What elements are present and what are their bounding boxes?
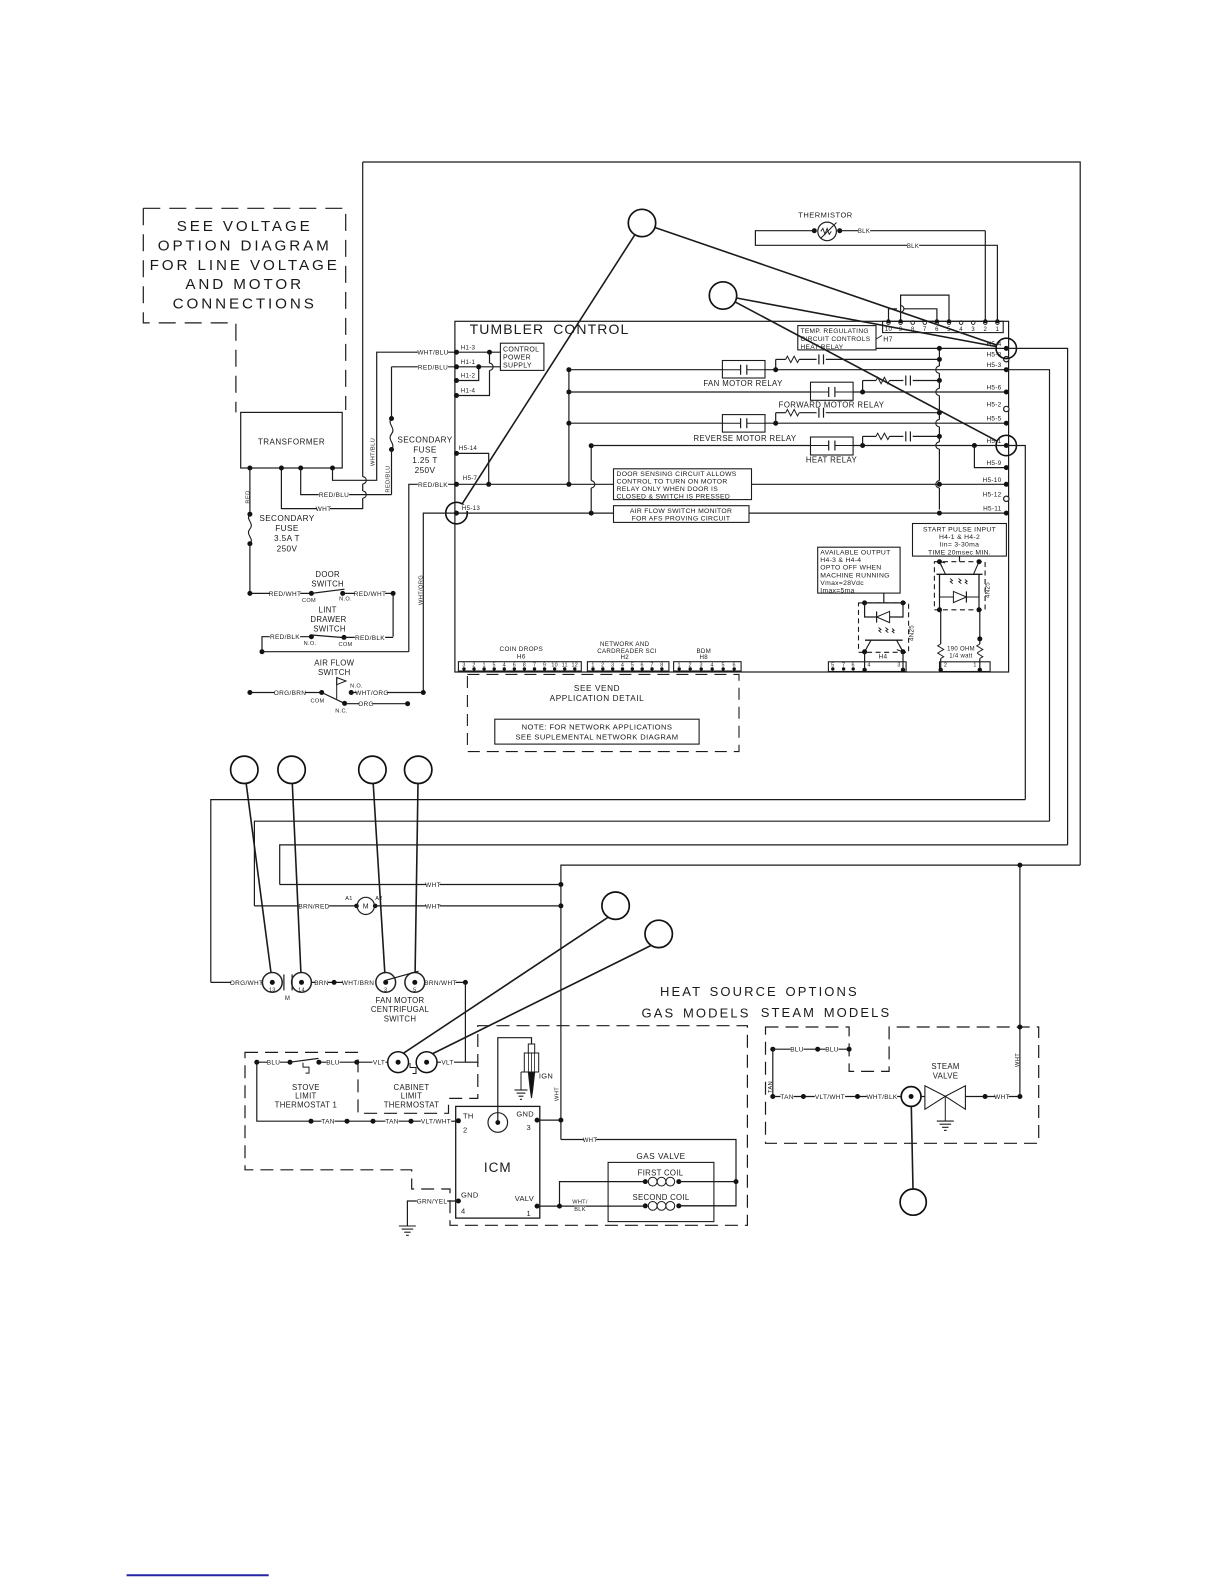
pin H7-1 wire to thermistor xyxy=(995,319,999,323)
svg-text:H7: H7 xyxy=(883,337,893,344)
wire second coil right xyxy=(679,1205,736,1207)
svg-text:RELAY ONLY WHEN DOOR IS: RELAY ONLY WHEN DOOR IS xyxy=(617,486,719,493)
centrifugal switch contact 13 xyxy=(262,973,282,993)
svg-text:GND: GND xyxy=(461,1191,479,1200)
wire label WHT xyxy=(317,506,330,513)
heat relay rail xyxy=(590,446,592,481)
wire H5-1 net bottom run xyxy=(211,800,1026,983)
svg-text:VLT: VLT xyxy=(373,1060,385,1067)
svg-text:H5-11: H5-11 xyxy=(983,506,1002,513)
svg-text:H5-14: H5-14 xyxy=(459,445,478,452)
wire heat relay coil H5-1 row xyxy=(591,445,810,447)
svg-text:HEAT SOURCE OPTIONS: HEAT SOURCE OPTIONS xyxy=(660,984,859,999)
svg-text:APPLICATION DETAIL: APPLICATION DETAIL xyxy=(550,694,645,703)
pin H1-3 xyxy=(454,350,459,355)
svg-text:BRN/WHT: BRN/WHT xyxy=(424,980,456,987)
svg-text:VLT/WHT: VLT/WHT xyxy=(421,1119,451,1126)
svg-text:1: 1 xyxy=(527,1209,531,1218)
svg-text:CABINET: CABINET xyxy=(394,1083,430,1092)
svg-text:SWITCH: SWITCH xyxy=(318,668,351,677)
svg-text:FOR LINE VOLTAGE: FOR LINE VOLTAGE xyxy=(150,257,340,274)
cabinet limit thermostat S5 contact B xyxy=(416,1052,437,1073)
svg-text:RED/BLK: RED/BLK xyxy=(355,635,385,642)
wire fan relay coil H5-3 row xyxy=(569,369,723,371)
jump circle 4 xyxy=(278,756,305,783)
svg-text:GND: GND xyxy=(516,1110,534,1119)
snubber RC row3 xyxy=(775,413,777,424)
svg-text:RED/WHT: RED/WHT xyxy=(269,591,301,598)
ICM module box xyxy=(456,1106,540,1218)
svg-text:2: 2 xyxy=(944,663,947,669)
jump circle 1 xyxy=(628,209,655,236)
svg-text:FUSE: FUSE xyxy=(413,446,437,455)
svg-text:1/4 watt: 1/4 watt xyxy=(949,653,972,659)
jump line circle2 to H5-1 xyxy=(735,302,998,442)
temp regulating note box xyxy=(798,326,876,350)
svg-text:Imax=5ma: Imax=5ma xyxy=(820,588,854,595)
svg-text:GRN/YEL: GRN/YEL xyxy=(417,1199,448,1206)
svg-text:TH: TH xyxy=(463,1111,474,1120)
wire thermistor right BLK to H7-2 xyxy=(840,230,986,232)
jump line circle1 to H5-13 xyxy=(462,235,635,504)
svg-text:WHT/BRN: WHT/BRN xyxy=(342,980,374,987)
svg-text:WHT/ORG: WHT/ORG xyxy=(419,575,425,605)
connector H2 network and cardreader xyxy=(587,662,669,671)
svg-text:M: M xyxy=(285,996,290,1002)
fuse F1 secondary 3.5A T 250V xyxy=(248,514,251,544)
wire H1-1 to control power supply xyxy=(457,366,501,368)
wire WHT to fan motor xyxy=(280,884,561,886)
svg-text:AIR FLOW SWITCH MONITOR: AIR FLOW SWITCH MONITOR xyxy=(630,508,732,515)
svg-text:M: M xyxy=(363,904,369,911)
svg-text:SWITCH: SWITCH xyxy=(384,1014,417,1023)
jump circle 2 xyxy=(709,282,736,309)
wire BRN/RED to drive motor xyxy=(254,905,356,907)
jump line circle5 to contact 3 xyxy=(373,784,385,973)
dashed box see vend application detail xyxy=(467,674,739,751)
pin H7-9 jumper to H7-5 xyxy=(899,319,903,323)
relay K4 heat relay xyxy=(811,437,854,455)
wire RED/BLU to H1-1 xyxy=(392,366,457,368)
wire H5-13 net to AFS monitor and H5-11 xyxy=(457,512,614,514)
svg-text:START PULSE INPUT: START PULSE INPUT xyxy=(923,527,996,534)
svg-text:BLK: BLK xyxy=(858,229,870,235)
svg-text:TAN: TAN xyxy=(321,1119,334,1126)
svg-text:THERMOSTAT 1: THERMOSTAT 1 xyxy=(275,1100,338,1109)
jump line circle2 to H5-4 xyxy=(737,298,997,347)
wire reverse relay coil H5-5 row xyxy=(569,422,723,424)
svg-text:RED/BLU: RED/BLU xyxy=(385,465,391,492)
svg-text:TIME 20msec MIN.: TIME 20msec MIN. xyxy=(928,549,991,556)
svg-text:COM: COM xyxy=(302,598,316,604)
cabinet limit thermostat S5 contact A xyxy=(388,1052,409,1073)
svg-text:BLK: BLK xyxy=(907,244,919,250)
ring around pin H5-1 xyxy=(996,435,1016,455)
svg-text:4N25: 4N25 xyxy=(985,582,992,598)
wire WHT steam riser to frame xyxy=(1017,1094,1022,1099)
svg-text:4: 4 xyxy=(461,1207,465,1216)
connector H7 header xyxy=(883,321,1004,332)
wire RED/BLU transformer-pin3 to fuse xyxy=(301,468,392,495)
svg-text:N.C.: N.C. xyxy=(335,708,348,714)
relay K3 reverse motor relay xyxy=(722,415,765,433)
wire BLU steam xyxy=(770,1047,775,1052)
wire H1-3 to control power supply xyxy=(457,351,501,353)
dashed box steam models xyxy=(766,1027,1039,1143)
svg-text:COM: COM xyxy=(311,699,325,705)
svg-text:RED: RED xyxy=(246,490,252,503)
svg-text:LIMIT: LIMIT xyxy=(295,1092,316,1101)
wire WHT frame bottom run xyxy=(561,865,1080,1139)
label cabinet limit thermostat xyxy=(394,1083,430,1091)
diode LED U2 xyxy=(877,611,890,622)
svg-text:POWER: POWER xyxy=(503,355,531,362)
svg-text:RED/BLK: RED/BLK xyxy=(418,482,448,489)
wire opto to H4-4 xyxy=(864,652,866,670)
jump line circle9 to steam valve xyxy=(911,1106,913,1189)
svg-text:FOR AFS PROVING CIRCUIT: FOR AFS PROVING CIRCUIT xyxy=(632,515,731,522)
jump circle 9 xyxy=(900,1189,926,1215)
svg-text:250V: 250V xyxy=(277,544,298,553)
air flow switch S3 xyxy=(247,690,252,695)
pin H5-7 xyxy=(454,482,459,487)
svg-text:5: 5 xyxy=(413,988,416,994)
pin H5-8 xyxy=(1004,357,1009,362)
wire RED/BLK to lint drawer switch xyxy=(409,484,457,651)
phototransistor U2 xyxy=(865,639,903,641)
svg-text:TAN: TAN xyxy=(780,1094,793,1101)
door sensing note box xyxy=(614,469,752,500)
pin ICM GND 3 xyxy=(535,1118,540,1123)
svg-text:FIRST COIL: FIRST COIL xyxy=(638,1169,684,1178)
svg-text:STEAM MODELS: STEAM MODELS xyxy=(761,1005,892,1020)
igniter ground xyxy=(520,1072,522,1090)
svg-text:WHT/BLU: WHT/BLU xyxy=(370,438,376,466)
wire WHT to gas valve xyxy=(561,1140,736,1206)
wire ORG/WHT to contact 13 xyxy=(211,981,263,983)
jump circle 8 xyxy=(645,920,672,947)
svg-text:N.O.: N.O. xyxy=(304,641,317,647)
wire TAN steam riser xyxy=(772,1049,774,1096)
jump circle 3 xyxy=(231,756,258,783)
jump circle 5 xyxy=(359,756,386,783)
wire H1-2 jumper xyxy=(457,367,479,381)
svg-text:H5-7: H5-7 xyxy=(463,475,478,482)
svg-text:FORWARD MOTOR RELAY: FORWARD MOTOR RELAY xyxy=(779,401,885,410)
wire BRN xyxy=(311,981,349,983)
wire lint bottom to RED/BLK riser xyxy=(260,649,265,654)
svg-text:VLT/WHT: VLT/WHT xyxy=(815,1094,845,1101)
svg-text:STEAM: STEAM xyxy=(931,1062,959,1071)
wire first coil left xyxy=(560,1182,646,1207)
resistor R1 190 ohm xyxy=(940,610,942,644)
svg-text:VALV: VALV xyxy=(515,1194,534,1203)
svg-text:WHT: WHT xyxy=(425,882,441,889)
centrifugal switch contact 14 xyxy=(292,973,312,993)
resistor R2 190 ohm xyxy=(979,610,981,639)
svg-text:H4: H4 xyxy=(879,653,888,660)
svg-text:H8: H8 xyxy=(700,654,709,661)
svg-text:TUMBLER CONTROL: TUMBLER CONTROL xyxy=(470,321,630,337)
svg-text:TAN: TAN xyxy=(768,1081,774,1093)
svg-text:4N25: 4N25 xyxy=(909,625,916,641)
wire ICM GND3 to WHT drop xyxy=(537,1119,561,1121)
svg-text:H5-13: H5-13 xyxy=(462,505,481,512)
svg-text:H5-12: H5-12 xyxy=(983,491,1002,498)
svg-text:13: 13 xyxy=(269,988,276,994)
svg-text:HEAT RELAY: HEAT RELAY xyxy=(806,456,858,465)
svg-text:BRN/RED: BRN/RED xyxy=(298,903,329,910)
svg-text:WHT: WHT xyxy=(554,1087,560,1101)
svg-text:FUSE: FUSE xyxy=(275,524,299,533)
svg-text:IGN: IGN xyxy=(539,1072,553,1081)
svg-text:A2: A2 xyxy=(375,896,382,902)
svg-text:CLOSED & SWITCH IS PRESSED: CLOSED & SWITCH IS PRESSED xyxy=(617,494,731,501)
svg-text:2: 2 xyxy=(983,327,987,333)
dashed box gas models xyxy=(245,1026,747,1226)
pin H5-11 xyxy=(1004,511,1009,516)
svg-text:1: 1 xyxy=(996,327,1000,333)
svg-text:COM: COM xyxy=(339,642,353,648)
svg-text:AVAILABLE OUTPUT: AVAILABLE OUTPUT xyxy=(820,550,890,557)
pin H5-14 xyxy=(454,451,459,456)
svg-text:COIN DROPS: COIN DROPS xyxy=(500,646,543,653)
ICM spark terminal circle xyxy=(488,1113,508,1133)
wire TAN steam row xyxy=(770,1094,775,1099)
diode LED U3 xyxy=(940,574,954,597)
steam valve ground xyxy=(944,1096,946,1121)
fuse F2 secondary 1.25 T 250V xyxy=(389,447,394,452)
wire thermistor left BLK to H7-1 xyxy=(755,231,997,246)
wire ICM spark to igniter xyxy=(498,1038,532,1123)
jump line circle7 to cabinet thermostat left xyxy=(404,917,609,1053)
svg-text:H1-1: H1-1 xyxy=(461,359,476,366)
svg-text:SWITCH: SWITCH xyxy=(311,580,344,589)
svg-text:H4-1 & H4-2: H4-1 & H4-2 xyxy=(939,534,980,541)
jump line circle4 to contact 14 xyxy=(292,784,301,973)
switch blade 3 to 5 xyxy=(386,971,419,980)
svg-text:BLU: BLU xyxy=(790,1047,804,1054)
note box available output xyxy=(818,547,900,593)
connector H8 BDM xyxy=(674,662,742,671)
svg-text:3: 3 xyxy=(527,1123,531,1132)
connector H6 coin drops xyxy=(458,662,581,671)
door switch S1 xyxy=(247,591,252,596)
wire BRN/WHT xyxy=(425,981,466,983)
tumbler control box outline xyxy=(455,321,1009,672)
svg-text:N.O.: N.O. xyxy=(339,596,352,602)
svg-text:3.5A T: 3.5A T xyxy=(274,534,300,543)
wire WHT steam xyxy=(965,1096,1020,1098)
svg-text:1.25 T: 1.25 T xyxy=(412,456,437,465)
air flow switch monitor note box xyxy=(614,506,750,523)
pin H5-2 xyxy=(1004,406,1009,411)
svg-text:SUPPLY: SUPPLY xyxy=(503,363,532,370)
svg-text:4: 4 xyxy=(867,663,870,669)
stove limit thermostat S4 xyxy=(254,1060,259,1065)
ring around pin H5-4 xyxy=(996,338,1016,358)
wire H5-13 to WHT/ORG drop xyxy=(423,513,456,692)
pin H5-9 xyxy=(1004,465,1009,470)
pin H5-6 xyxy=(1004,390,1009,395)
pin H5-5 xyxy=(1004,421,1009,426)
svg-text:CENTRIFUGAL: CENTRIFUGAL xyxy=(371,1005,430,1014)
svg-text:10: 10 xyxy=(885,327,893,333)
svg-text:H1-3: H1-3 xyxy=(461,344,476,351)
photon arrows U3 xyxy=(950,579,967,585)
wire door to lint switch xyxy=(392,593,394,636)
svg-text:WHT/ORG: WHT/ORG xyxy=(355,690,389,697)
svg-text:FAN MOTOR RELAY: FAN MOTOR RELAY xyxy=(703,379,783,388)
svg-text:3: 3 xyxy=(971,327,975,333)
svg-text:LIMIT: LIMIT xyxy=(401,1092,422,1101)
wire H1-4 jumper with hop xyxy=(457,370,490,395)
svg-text:STOVE: STOVE xyxy=(292,1083,320,1092)
svg-text:RED/BLU: RED/BLU xyxy=(418,364,448,371)
svg-text:2: 2 xyxy=(463,1125,467,1134)
svg-text:ORG: ORG xyxy=(358,701,374,708)
connector H4 right section pins 2 and 1 xyxy=(940,662,991,672)
wire WHT/BLU transformer-pin4 to H1-3 xyxy=(333,352,457,480)
svg-text:SECONDARY: SECONDARY xyxy=(397,436,452,445)
svg-text:NOTE: FOR NETWORK APPLICATIONS: NOTE: FOR NETWORK APPLICATIONS xyxy=(522,723,673,732)
svg-text:ICM: ICM xyxy=(484,1160,512,1175)
phototransistor U3 xyxy=(937,573,983,575)
svg-text:ORG/BRN: ORG/BRN xyxy=(274,690,306,697)
svg-text:MACHINE RUNNING: MACHINE RUNNING xyxy=(820,572,889,579)
snubber common rail xyxy=(938,348,940,366)
svg-text:1: 1 xyxy=(973,663,976,669)
svg-text:THERMISTOR: THERMISTOR xyxy=(798,211,853,220)
svg-text:BLK: BLK xyxy=(574,1207,585,1213)
pin H5-4 xyxy=(1004,346,1009,351)
dashed note box SEE VOLTAGE OPTION DIAGRAM xyxy=(143,208,345,412)
pin ICM VALV 1 xyxy=(535,1204,540,1209)
pin H5-13 circled xyxy=(454,511,459,516)
svg-text:SEE SUPLEMENTAL NETWORK DIAGRA: SEE SUPLEMENTAL NETWORK DIAGRAM xyxy=(515,733,678,742)
svg-text:AND MOTOR: AND MOTOR xyxy=(185,276,304,293)
svg-text:TAN: TAN xyxy=(385,1119,398,1126)
svg-text:BLU: BLU xyxy=(267,1060,281,1067)
wire H5-4 net bottom run xyxy=(280,845,1068,885)
svg-text:H1-2: H1-2 xyxy=(461,373,476,380)
jump line circle8 to cabinet thermostat right xyxy=(433,945,652,1053)
svg-text:FAN MOTOR: FAN MOTOR xyxy=(376,996,425,1005)
wire VLT right xyxy=(437,1061,465,1063)
svg-text:BLU: BLU xyxy=(326,1060,340,1067)
svg-text:SEE VOLTAGE: SEE VOLTAGE xyxy=(177,218,313,235)
jump circle 7 xyxy=(602,892,629,919)
svg-text:3: 3 xyxy=(897,663,900,669)
wire H5-4 to right vertical xyxy=(1006,348,1067,845)
left relay rail (rows 1-3) xyxy=(568,370,570,485)
wire H5-7 net to door sensing and H5-10 xyxy=(457,483,614,485)
wire VLT to cabinet thermostat xyxy=(357,1061,388,1063)
svg-text:250V: 250V xyxy=(415,466,436,475)
svg-text:GAS MODELS: GAS MODELS xyxy=(642,1005,751,1020)
svg-text:REVERSE MOTOR RELAY: REVERSE MOTOR RELAY xyxy=(693,434,796,443)
wire BRN/WHT drop to VLT row xyxy=(464,982,466,1062)
svg-text:190 OHM: 190 OHM xyxy=(947,646,975,652)
wire GRN/YEL to ground xyxy=(411,1200,459,1202)
jump circle 6 xyxy=(405,756,432,783)
svg-text:SWITCH: SWITCH xyxy=(313,625,346,634)
wire WHT transformer-pin2 loop (outer frame) xyxy=(281,468,362,509)
pin H5-12 xyxy=(1004,496,1009,501)
svg-text:A1: A1 xyxy=(345,896,352,902)
relay K1 fan motor relay xyxy=(722,361,765,379)
transformer T1 xyxy=(241,412,343,468)
svg-text:SECONDARY: SECONDARY xyxy=(259,514,314,523)
steam valve V1 xyxy=(921,1096,925,1098)
wire H5-14 to H5-7 net xyxy=(457,453,489,484)
svg-text:Vmax=28Vdc: Vmax=28Vdc xyxy=(820,580,864,587)
svg-text:N.O.: N.O. xyxy=(350,684,363,690)
jump line circle1 to H5-4 xyxy=(655,228,996,345)
wire H5-4 net xyxy=(876,347,1006,349)
wire ICM VALV to coils WHT/BLK xyxy=(537,1205,645,1207)
note box start pulse input xyxy=(913,524,1007,557)
jump ring steam valve input xyxy=(909,1094,914,1099)
wire forward relay coil H5-6 row xyxy=(569,391,811,393)
svg-text:CONTROL TO TURN ON MOTOR: CONTROL TO TURN ON MOTOR xyxy=(617,479,728,486)
wire WHT motor to frame xyxy=(375,905,561,907)
svg-text:RED/BLU: RED/BLU xyxy=(319,492,349,499)
pin H7-10 jumper to H7-6 xyxy=(887,319,891,323)
svg-text:CONTROL: CONTROL xyxy=(503,347,539,354)
svg-text:3: 3 xyxy=(384,988,387,994)
capacitor symbol between 13 and 14 xyxy=(283,974,285,990)
svg-text:Iin= 3-30ma: Iin= 3-30ma xyxy=(940,542,979,549)
air flow N.C. contact xyxy=(342,701,347,706)
svg-text:THERMOSTAT: THERMOSTAT xyxy=(384,1100,440,1109)
svg-text:WHT: WHT xyxy=(1015,1053,1021,1067)
wire H5-1 to right vertical xyxy=(1006,446,1025,800)
svg-text:RED/WHT: RED/WHT xyxy=(354,591,386,598)
svg-text:WHT/: WHT/ xyxy=(572,1200,588,1206)
control power supply box xyxy=(500,343,544,370)
svg-text:H4-3 & H4-4: H4-3 & H4-4 xyxy=(820,557,861,564)
svg-text:TEMP. REGULATING: TEMP. REGULATING xyxy=(801,328,869,335)
svg-text:LINT: LINT xyxy=(319,606,337,615)
svg-text:H5-2: H5-2 xyxy=(986,402,1001,409)
snubber RC row4 xyxy=(862,436,864,445)
ground symbol for ICM xyxy=(399,1225,416,1227)
photon arrows U2 xyxy=(879,628,895,634)
svg-text:WHT: WHT xyxy=(425,903,441,910)
drive motor M1 xyxy=(354,904,359,909)
svg-text:OPTION DIAGRAM: OPTION DIAGRAM xyxy=(158,237,332,254)
pin H1-2 xyxy=(454,378,459,383)
svg-text:H2: H2 xyxy=(620,654,629,661)
svg-text:BRN: BRN xyxy=(314,980,329,987)
lint drawer switch S2 xyxy=(262,637,311,652)
pin H5-3 xyxy=(1004,367,1009,372)
svg-text:H5-10: H5-10 xyxy=(983,477,1002,484)
svg-text:H6: H6 xyxy=(517,653,526,660)
svg-text:DOOR SENSING CIRCUIT ALLOWS: DOOR SENSING CIRCUIT ALLOWS xyxy=(617,471,737,478)
svg-text:TRANSFORMER: TRANSFORMER xyxy=(258,438,325,447)
jump line circle3 to contact 13 xyxy=(246,784,271,973)
svg-text:H5-9: H5-9 xyxy=(986,460,1001,467)
pin H1-4 xyxy=(454,393,459,398)
gas valve box xyxy=(608,1162,714,1221)
svg-text:DOOR: DOOR xyxy=(315,570,340,579)
wire H5-3 net bottom run xyxy=(254,821,1049,906)
wire opto to H4-3 xyxy=(902,652,904,670)
snubber RC row1 xyxy=(775,359,777,369)
svg-text:H5-5: H5-5 xyxy=(986,416,1001,423)
